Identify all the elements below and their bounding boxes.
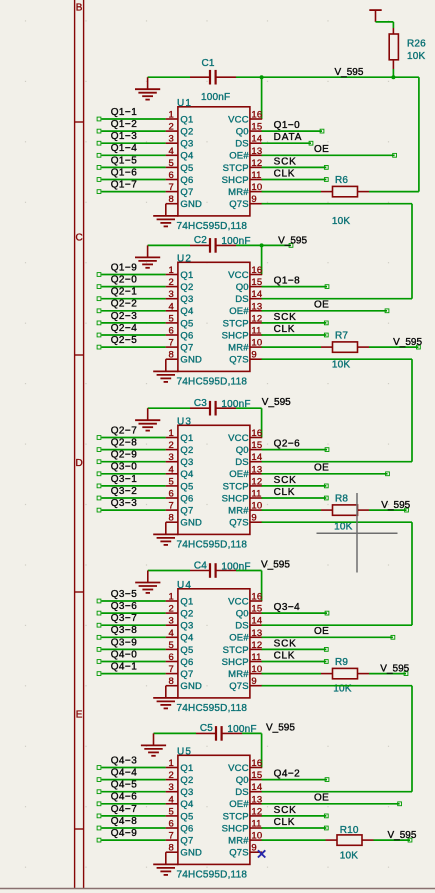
U2 pin 5 (Q5) xyxy=(166,322,178,324)
wire output net Q1-5 xyxy=(101,166,165,168)
svg-text:C: C xyxy=(75,233,82,244)
wire VCC drop to U5 pin 16 xyxy=(261,733,263,767)
svg-text:74HC595D,118: 74HC595D,118 xyxy=(177,703,248,714)
svg-text:DS: DS xyxy=(235,787,249,798)
svg-text:Q2−1: Q2−1 xyxy=(111,287,138,298)
U5 pin 12 (STCP) xyxy=(250,815,262,817)
wire output net Q2-7 xyxy=(101,437,165,439)
wire output net Q1-6 xyxy=(101,179,165,181)
svg-text:8: 8 xyxy=(169,513,174,524)
svg-text:Q1−8: Q1−8 xyxy=(274,276,301,287)
resistor R10 xyxy=(326,835,374,845)
svg-text:V_595: V_595 xyxy=(335,67,364,78)
U4 pin 15 (Q0) xyxy=(250,612,262,614)
U1 pin 10 (MR#) xyxy=(250,191,262,193)
wire net OE at U4 xyxy=(262,636,393,638)
resistor R26 xyxy=(389,28,398,69)
U1 pin 15 (Q0) xyxy=(250,130,262,132)
svg-text:2: 2 xyxy=(169,770,174,781)
svg-text:Q3: Q3 xyxy=(180,294,193,305)
capacitor C1 xyxy=(190,70,236,85)
svg-text:10: 10 xyxy=(251,501,262,512)
wire U1 MR# to R6 xyxy=(262,191,321,193)
svg-text:Q0: Q0 xyxy=(236,609,249,620)
wire output net Q1-4 xyxy=(101,154,165,156)
wire cascade U1 Q7S to next stage DS xyxy=(262,204,412,299)
junction V_595 at R26 xyxy=(391,75,395,79)
svg-text:10K: 10K xyxy=(332,360,351,371)
svg-text:6: 6 xyxy=(169,819,174,830)
U4 pin 5 (Q5) xyxy=(166,648,178,650)
svg-text:9: 9 xyxy=(251,676,256,687)
svg-text:V_595: V_595 xyxy=(388,830,417,841)
svg-text:Q5: Q5 xyxy=(180,811,193,822)
svg-text:GND: GND xyxy=(180,518,202,529)
svg-text:16: 16 xyxy=(251,428,262,439)
svg-text:1: 1 xyxy=(169,110,174,121)
svg-text:Q1−1: Q1−1 xyxy=(111,107,138,118)
svg-text:Q6: Q6 xyxy=(180,823,193,834)
svg-text:15: 15 xyxy=(251,440,262,451)
svg-text:Q3: Q3 xyxy=(180,787,193,798)
wire cascade U2 Q7S to next stage DS xyxy=(262,359,412,462)
svg-text:10K: 10K xyxy=(334,522,353,533)
wire output net Q4-6 xyxy=(101,803,165,805)
svg-text:C4: C4 xyxy=(194,560,207,571)
capacitor C3 xyxy=(190,401,236,416)
svg-text:Q4−5: Q4−5 xyxy=(111,780,138,791)
svg-text:SHCP: SHCP xyxy=(222,175,249,186)
wire net OE at U3 xyxy=(262,473,388,475)
svg-text:V_595: V_595 xyxy=(380,663,409,674)
svg-text:Q2−3: Q2−3 xyxy=(111,311,138,322)
wire output net Q2-9 xyxy=(101,461,165,463)
svg-text:CLK: CLK xyxy=(274,650,296,661)
svg-text:2: 2 xyxy=(169,604,174,615)
svg-text:74HC595D,118: 74HC595D,118 xyxy=(177,540,248,551)
svg-text:SHCP: SHCP xyxy=(222,823,249,834)
resistor R6 xyxy=(321,186,369,196)
wire VCC drop to U4 pin 16 xyxy=(261,571,263,602)
wire net DATA xyxy=(262,142,311,144)
ground symbol under U3 pin 8 xyxy=(153,534,178,545)
svg-text:Q4: Q4 xyxy=(180,633,193,644)
IC U1 74HC595 body xyxy=(178,107,250,216)
wire C2 to VCC node xyxy=(236,244,262,246)
svg-text:GND: GND xyxy=(180,199,202,210)
wire output net Q4-4 xyxy=(101,779,165,781)
wire output net Q4-1 xyxy=(101,673,165,675)
capacitor C4 xyxy=(190,563,236,578)
svg-text:Q2: Q2 xyxy=(180,445,193,456)
svg-text:Q0: Q0 xyxy=(236,775,249,786)
svg-text:10K: 10K xyxy=(340,850,359,861)
svg-text:SCK: SCK xyxy=(274,156,297,167)
wire output net Q2-3 xyxy=(101,322,165,324)
svg-text:Q3−1: Q3−1 xyxy=(111,474,138,485)
svg-text:16: 16 xyxy=(251,110,262,121)
svg-text:3: 3 xyxy=(169,134,174,145)
svg-text:Q5: Q5 xyxy=(180,163,193,174)
svg-text:STCP: STCP xyxy=(223,811,249,822)
IC U4 74HC595 body xyxy=(178,589,250,698)
U3 pin 12 (STCP) xyxy=(250,485,262,487)
U5 pin 9 (Q7S) xyxy=(250,851,262,853)
svg-text:CLK: CLK xyxy=(274,817,296,828)
svg-text:Q7S: Q7S xyxy=(229,848,249,859)
wire net OE at U5 xyxy=(262,803,400,805)
wire output net Q3-1 xyxy=(101,485,165,487)
svg-text:1: 1 xyxy=(169,265,174,276)
wire output net Q2-4 xyxy=(101,334,165,336)
wire cascade from previous stage into U4 DS xyxy=(262,624,412,626)
svg-text:STCP: STCP xyxy=(223,318,249,329)
svg-text:11: 11 xyxy=(251,489,261,500)
svg-text:CLK: CLK xyxy=(274,487,296,498)
U3 pin 14 (DS) xyxy=(250,461,262,463)
svg-text:Q4−9: Q4−9 xyxy=(111,828,138,839)
wire R10 to V_595 stub xyxy=(374,839,411,841)
U2 pin 6 (Q6) xyxy=(166,334,178,336)
wire cascade from previous stage into U3 DS xyxy=(262,461,412,463)
wire output net Q4-7 xyxy=(101,815,165,817)
svg-text:V_595: V_595 xyxy=(266,722,295,733)
svg-text:OE: OE xyxy=(314,144,329,155)
svg-text:MR#: MR# xyxy=(228,343,249,354)
wire output net Q3-3 xyxy=(101,509,165,511)
svg-text:OE#: OE# xyxy=(229,306,249,317)
svg-text:Q2: Q2 xyxy=(180,775,193,786)
U2 pin 12 (STCP) xyxy=(250,322,262,324)
resistor R9 xyxy=(321,668,369,678)
svg-text:12: 12 xyxy=(251,476,262,487)
svg-text:3: 3 xyxy=(169,782,174,793)
svg-text:OE#: OE# xyxy=(229,469,249,480)
wire output net Q3-6 xyxy=(101,612,165,614)
U5 pin 14 (DS) xyxy=(250,791,262,793)
svg-text:R10: R10 xyxy=(340,825,359,836)
U5 pin 11 (SHCP) xyxy=(250,827,262,829)
U2 pin 7 (Q7) xyxy=(166,346,178,348)
wire output net Q2-1 xyxy=(101,298,165,300)
svg-text:SHCP: SHCP xyxy=(222,330,249,341)
U1 pin 6 (Q6) xyxy=(166,179,178,181)
wire net CLK at U2 xyxy=(262,334,327,336)
U2 pin 9 (Q7S) xyxy=(250,358,262,360)
ground (decoupling C4) xyxy=(135,571,160,593)
wire output net Q3-5 xyxy=(101,600,165,602)
wire VCC drop to U3 pin 16 xyxy=(261,408,263,437)
wire output net Q4-0 xyxy=(101,661,165,663)
svg-text:DS: DS xyxy=(235,294,249,305)
svg-text:DATA: DATA xyxy=(274,132,303,143)
svg-text:6: 6 xyxy=(169,326,174,337)
svg-text:DS: DS xyxy=(235,621,249,632)
svg-text:MR#: MR# xyxy=(228,669,249,680)
svg-text:7: 7 xyxy=(169,664,174,675)
wire net OE at U2 xyxy=(262,310,387,312)
wire output net Q1-7 xyxy=(101,191,165,193)
U2 pin 8 (GND) xyxy=(166,359,178,371)
wire V_595 stub at C2 xyxy=(262,244,291,246)
svg-text:Q3: Q3 xyxy=(180,457,193,468)
wire output net Q4-3 xyxy=(101,767,165,769)
svg-text:Q7S: Q7S xyxy=(229,681,249,692)
svg-text:8: 8 xyxy=(169,676,174,687)
wire C1 to VCC node xyxy=(236,76,262,78)
svg-text:STCP: STCP xyxy=(223,645,249,656)
svg-text:2: 2 xyxy=(169,440,174,451)
capacitor C5 xyxy=(196,726,242,741)
wire output net Q1-9 xyxy=(101,274,165,276)
wire output net Q2-5 xyxy=(101,346,165,348)
svg-text:U5: U5 xyxy=(177,746,192,757)
svg-text:5: 5 xyxy=(169,476,174,487)
svg-text:12: 12 xyxy=(251,313,262,324)
svg-text:C1: C1 xyxy=(202,58,215,69)
svg-text:Q4−6: Q4−6 xyxy=(111,792,138,803)
svg-text:Q6: Q6 xyxy=(180,657,193,668)
svg-text:B: B xyxy=(76,3,83,14)
svg-text:3: 3 xyxy=(169,289,174,300)
svg-text:VCC: VCC xyxy=(228,596,249,607)
U3 pin 4 (Q4) xyxy=(166,473,178,475)
svg-text:Q2−2: Q2−2 xyxy=(111,299,138,310)
svg-text:Q4−4: Q4−4 xyxy=(111,768,138,779)
U5 pin 5 (Q5) xyxy=(166,815,178,817)
svg-text:Q3−4: Q3−4 xyxy=(274,602,301,613)
svg-text:DS: DS xyxy=(235,139,249,150)
wire output net Q1-8 xyxy=(262,286,327,288)
wire output net Q2-8 xyxy=(101,449,165,451)
wire C5 to VCC node xyxy=(242,732,262,734)
svg-text:5: 5 xyxy=(169,313,174,324)
svg-text:R8: R8 xyxy=(335,493,348,504)
svg-text:Q1−5: Q1−5 xyxy=(111,155,138,166)
svg-text:SHCP: SHCP xyxy=(222,493,249,504)
svg-text:6: 6 xyxy=(169,489,174,500)
svg-text:Q3−9: Q3−9 xyxy=(111,637,138,648)
svg-text:1: 1 xyxy=(169,592,174,603)
svg-text:15: 15 xyxy=(251,604,262,615)
power symbol (V_595 supply bar) xyxy=(369,10,381,22)
svg-text:12: 12 xyxy=(251,640,262,651)
svg-text:Q5: Q5 xyxy=(180,318,193,329)
svg-text:1: 1 xyxy=(169,758,174,769)
svg-text:16: 16 xyxy=(251,265,262,276)
svg-text:Q7: Q7 xyxy=(180,669,193,680)
svg-text:E: E xyxy=(76,710,83,721)
U4 pin 6 (Q6) xyxy=(166,661,178,663)
wire V_595 rail xyxy=(262,77,419,191)
U5 pin 4 (Q4) xyxy=(166,803,178,805)
U1 pin 16 (VCC) xyxy=(250,118,262,120)
svg-text:10: 10 xyxy=(251,831,262,842)
svg-text:Q0: Q0 xyxy=(236,282,249,293)
svg-text:OE#: OE# xyxy=(229,799,249,810)
svg-text:9: 9 xyxy=(251,194,256,205)
junction V_595 at C1 xyxy=(260,75,264,79)
svg-text:Q3: Q3 xyxy=(180,621,193,632)
svg-text:D: D xyxy=(75,458,82,469)
svg-text:Q7: Q7 xyxy=(180,506,193,517)
svg-text:74HC595D,118: 74HC595D,118 xyxy=(177,377,248,388)
wire output net Q1-1 xyxy=(101,118,165,120)
svg-text:VCC: VCC xyxy=(228,270,249,281)
svg-text:Q7S: Q7S xyxy=(229,355,249,366)
U4 pin 12 (STCP) xyxy=(250,648,262,650)
wire output net Q3-0 xyxy=(101,473,165,475)
wire R7 to V_595 stub xyxy=(369,346,418,348)
wire cascade from previous stage into U5 DS xyxy=(262,791,412,793)
ground symbol under U4 pin 8 xyxy=(153,698,178,709)
svg-text:U4: U4 xyxy=(177,580,192,591)
svg-text:OE: OE xyxy=(314,793,329,804)
U4 pin 8 (GND) xyxy=(166,686,178,698)
U3 pin 7 (Q7) xyxy=(166,509,178,511)
U2 pin 10 (MR#) xyxy=(250,346,262,348)
wire power symbol to R26 xyxy=(376,22,394,28)
wire U2 MR# to R7 xyxy=(262,346,321,348)
svg-text:SCK: SCK xyxy=(274,805,297,816)
svg-text:VCC: VCC xyxy=(228,763,249,774)
wire net SCK at U5 xyxy=(262,815,327,817)
svg-text:C2: C2 xyxy=(194,235,207,246)
svg-text:9: 9 xyxy=(251,513,256,524)
svg-text:10: 10 xyxy=(251,182,262,193)
ground (decoupling C1) xyxy=(135,77,160,99)
U2 pin 1 (Q1) xyxy=(166,274,178,276)
svg-text:Q1: Q1 xyxy=(180,114,193,125)
wire output net Q2-6 xyxy=(262,449,327,451)
svg-text:Q1−6: Q1−6 xyxy=(111,167,138,178)
svg-text:Q2−6: Q2−6 xyxy=(274,439,301,450)
IC U5 74HC595 body xyxy=(178,755,250,864)
wire U3 decoupling: ground to C3 xyxy=(148,407,190,409)
U1 pin 13 (OE#) xyxy=(250,154,262,156)
U1 pin 12 (STCP) xyxy=(250,166,262,168)
svg-text:Q3−7: Q3−7 xyxy=(111,613,138,624)
svg-text:10: 10 xyxy=(251,338,262,349)
U4 pin 9 (Q7S) xyxy=(250,685,262,687)
svg-text:SCK: SCK xyxy=(274,638,297,649)
U4 pin 11 (SHCP) xyxy=(250,661,262,663)
svg-text:GND: GND xyxy=(180,681,202,692)
U2 pin 11 (SHCP) xyxy=(250,334,262,336)
U1 pin 3 (Q3) xyxy=(166,142,178,144)
U5 pin 13 (OE#) xyxy=(250,803,262,805)
U4 pin 4 (Q4) xyxy=(166,636,178,638)
wire cascade U4 Q7S to next stage DS xyxy=(262,686,412,792)
U3 pin 5 (Q5) xyxy=(166,485,178,487)
svg-text:Q1−0: Q1−0 xyxy=(274,120,301,131)
wire net CLK at U1 xyxy=(262,179,327,181)
svg-text:Q2: Q2 xyxy=(180,609,193,620)
svg-text:Q3−0: Q3−0 xyxy=(111,462,138,473)
svg-text:Q7S: Q7S xyxy=(229,518,249,529)
svg-text:Q7: Q7 xyxy=(180,343,193,354)
svg-text:Q2: Q2 xyxy=(180,282,193,293)
wire U2 decoupling: ground to C2 xyxy=(148,244,190,246)
U1 pin 11 (SHCP) xyxy=(250,179,262,181)
wire R9 to V_595 stub xyxy=(369,673,406,675)
U4 pin 3 (Q3) xyxy=(166,624,178,626)
resistor R7 xyxy=(321,342,369,352)
svg-text:VCC: VCC xyxy=(228,433,249,444)
svg-text:13: 13 xyxy=(251,628,262,639)
svg-text:Q1: Q1 xyxy=(180,763,193,774)
svg-text:Q5: Q5 xyxy=(180,645,193,656)
U3 pin 13 (OE#) xyxy=(250,473,262,475)
svg-text:14: 14 xyxy=(251,134,262,145)
svg-text:STCP: STCP xyxy=(223,481,249,492)
svg-text:4: 4 xyxy=(169,146,174,157)
svg-text:R9: R9 xyxy=(335,657,348,668)
svg-text:Q1−7: Q1−7 xyxy=(111,180,138,191)
U2 pin 13 (OE#) xyxy=(250,310,262,312)
svg-text:STCP: STCP xyxy=(223,163,249,174)
svg-text:11: 11 xyxy=(251,326,261,337)
U3 pin 16 (VCC) xyxy=(250,437,262,439)
U1 pin 8 (GND) xyxy=(166,204,178,216)
U1 pin 9 (Q7S) xyxy=(250,203,262,205)
wire R26 to V_595 rail xyxy=(392,69,394,77)
svg-text:7: 7 xyxy=(169,501,174,512)
svg-text:Q7: Q7 xyxy=(180,187,193,198)
wire output net Q4-5 xyxy=(101,791,165,793)
wire cascade U3 Q7S to next stage DS xyxy=(262,522,412,625)
svg-text:7: 7 xyxy=(169,831,174,842)
U1 pin 7 (Q7) xyxy=(166,191,178,193)
svg-text:14: 14 xyxy=(251,289,262,300)
svg-text:Q2−8: Q2−8 xyxy=(111,438,138,449)
svg-text:14: 14 xyxy=(251,452,262,463)
IC U3 74HC595 body xyxy=(178,425,250,534)
U5 pin 1 (Q1) xyxy=(166,767,178,769)
junction V_595 at C2 xyxy=(260,243,264,247)
svg-text:5: 5 xyxy=(169,806,174,817)
U5 pin 6 (Q6) xyxy=(166,827,178,829)
svg-text:Q5: Q5 xyxy=(180,481,193,492)
wire VCC drop to U1 pin 16 xyxy=(261,77,263,119)
svg-text:OE: OE xyxy=(314,300,329,311)
IC U2 74HC595 body xyxy=(178,262,250,371)
svg-text:13: 13 xyxy=(251,794,262,805)
svg-text:U1: U1 xyxy=(177,98,192,109)
U2 pin 15 (Q0) xyxy=(250,286,262,288)
svg-text:SCK: SCK xyxy=(274,475,297,486)
ground (decoupling C2) xyxy=(135,245,160,267)
svg-text:V_595: V_595 xyxy=(261,560,290,571)
U3 pin 9 (Q7S) xyxy=(250,521,262,523)
svg-text:9: 9 xyxy=(251,843,256,854)
svg-text:V_595: V_595 xyxy=(393,337,422,348)
U3 pin 15 (Q0) xyxy=(250,449,262,451)
U4 pin 2 (Q2) xyxy=(166,612,178,614)
svg-text:Q1−3: Q1−3 xyxy=(111,131,138,142)
svg-text:Q3−8: Q3−8 xyxy=(111,625,138,636)
svg-text:Q4: Q4 xyxy=(180,799,193,810)
U1 pin 1 (Q1) xyxy=(166,118,178,120)
svg-text:13: 13 xyxy=(251,464,262,475)
U2 pin 3 (Q3) xyxy=(166,298,178,300)
svg-text:8: 8 xyxy=(169,843,174,854)
svg-text:Q0: Q0 xyxy=(236,127,249,138)
svg-text:C5: C5 xyxy=(200,723,213,734)
ground symbol under U5 pin 8 xyxy=(153,864,178,875)
svg-text:V_595: V_595 xyxy=(262,397,291,408)
svg-text:4: 4 xyxy=(169,794,174,805)
